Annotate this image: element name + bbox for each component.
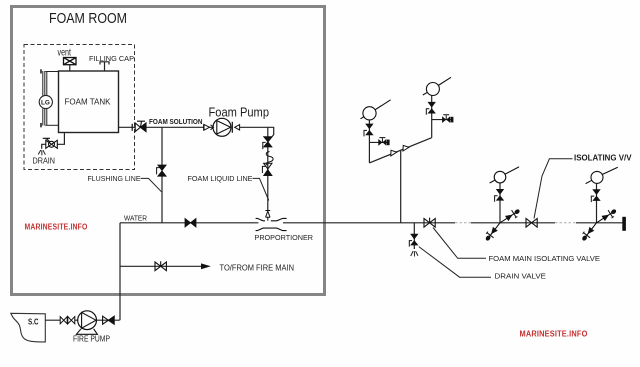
drain open end with rays xyxy=(42,144,46,149)
valve V-sc2 open xyxy=(68,317,75,324)
foam tank unit dashed enclosure xyxy=(24,45,135,170)
drain open end rays xyxy=(411,251,418,257)
nozzle into proportioner xyxy=(265,211,270,218)
svg-text:WATER: WATER xyxy=(124,213,147,222)
hose flange serif xyxy=(612,217,614,219)
valve V-w1 filled on water line xyxy=(185,219,196,228)
wire fire pump discharge xyxy=(97,319,120,321)
hydrant diagonal M4 xyxy=(581,208,617,241)
svg-text:ISOLATING V/V: ISOLATING V/V xyxy=(574,153,632,163)
vent flame screen xyxy=(64,58,77,65)
pump base xyxy=(76,329,97,335)
valve V-m2 filled xyxy=(428,102,436,114)
drain pipe from tank xyxy=(57,133,64,145)
monitor 2 column xyxy=(431,96,433,138)
hydrant stub M2 xyxy=(432,119,451,121)
svg-text:MARINESITE.INFO: MARINESITE.INFO xyxy=(520,329,588,338)
end cap blind xyxy=(622,217,626,231)
hose flange T xyxy=(487,233,494,238)
wire hose arm xyxy=(597,211,615,222)
svg-text:PROPORTIONER: PROPORTIONER xyxy=(255,233,314,242)
svg-text:FOAM ROOM: FOAM ROOM xyxy=(49,10,127,27)
wire hose arm xyxy=(584,223,596,239)
valve V-m1 filled xyxy=(365,124,373,136)
pump P1 foam pump xyxy=(213,118,231,136)
valve V-m4 filled xyxy=(592,189,600,201)
svg-text:vent: vent xyxy=(58,47,72,59)
hydrant stub M1 xyxy=(369,141,387,143)
pump outlet flange xyxy=(231,122,233,133)
arrow to fire main xyxy=(201,263,211,269)
svg-text:FLUSHING LINE: FLUSHING LINE xyxy=(88,174,141,183)
valve V-fl1 filled on foam liquid line xyxy=(264,137,272,147)
wire sea suction xyxy=(45,319,77,321)
hose flange T xyxy=(608,210,613,217)
svg-text:TO/FROM FIRE MAIN: TO/FROM FIRE MAIN xyxy=(220,263,295,272)
hose flange T xyxy=(512,210,517,217)
svg-text:LG: LG xyxy=(41,100,50,107)
wire foam liquid line vertical xyxy=(267,127,269,210)
svg-text:Foam Pump: Foam Pump xyxy=(209,105,270,120)
wire pump discharge xyxy=(240,127,274,141)
flow arrow on manifold 2 xyxy=(403,145,409,151)
hose valve xyxy=(588,227,595,234)
hose flange serif xyxy=(515,217,517,219)
svg-text:DRAIN: DRAIN xyxy=(33,157,56,166)
valve V-flush filled xyxy=(158,165,166,176)
relief valve V-fl2 xyxy=(264,163,272,169)
svg-text:S.C: S.C xyxy=(28,318,39,327)
valve V-sc1 open xyxy=(60,317,67,324)
wire water riser vertical xyxy=(119,223,121,320)
spring symbol relief xyxy=(266,152,273,166)
foam tank T1 xyxy=(59,71,119,133)
svg-text:FOAM LIQUID LINE: FOAM LIQUID LINE xyxy=(188,174,253,183)
pump P2 fire pump xyxy=(78,311,97,330)
monitor 1 column xyxy=(368,120,370,163)
svg-text:DRAIN VALVE: DRAIN VALVE xyxy=(495,272,547,281)
foam room boundary box xyxy=(12,7,325,295)
hose flange serif xyxy=(486,232,488,234)
valve V-m3 filled xyxy=(496,189,504,201)
svg-text:FOAM SOLUTION: FOAM SOLUTION xyxy=(149,117,203,126)
drain branch xyxy=(413,223,415,249)
wire vent stem xyxy=(69,65,71,71)
hydrant diagonal M3 xyxy=(485,208,521,241)
wire hose arm xyxy=(488,223,500,239)
flow arrow small xyxy=(211,125,214,130)
wire hose arm xyxy=(500,211,518,222)
hose flange T xyxy=(584,233,591,238)
wire to/from fire main xyxy=(120,265,202,267)
drain globe valve xyxy=(43,138,58,148)
wire tank outlet foam solution xyxy=(119,126,136,128)
bracket indicator xyxy=(263,142,266,149)
wire foam solution line to pump xyxy=(146,126,213,128)
monitor M3 xyxy=(494,171,506,183)
svg-text:FIRE PUMP: FIRE PUMP xyxy=(73,335,110,344)
flow arrow open xyxy=(204,124,210,130)
hose valve xyxy=(505,215,513,222)
hose coupling xyxy=(485,235,492,242)
monitor 3 column xyxy=(499,183,501,223)
level gauge LG xyxy=(41,69,59,127)
hose coupling xyxy=(581,235,588,242)
filling cap symbol xyxy=(100,62,109,71)
wire faint sections xyxy=(455,222,576,224)
wire water main horizontal xyxy=(120,222,623,224)
hose valve xyxy=(602,215,610,222)
svg-text:FILLING CAP: FILLING CAP xyxy=(89,54,134,63)
monitor M1 xyxy=(363,107,376,120)
monitor 4 column xyxy=(596,183,598,223)
proportioner venturi xyxy=(256,218,287,230)
monitor M2 xyxy=(426,83,439,96)
flow arrow on manifold xyxy=(391,150,397,156)
sea chest xyxy=(11,313,46,342)
wire flushing line xyxy=(161,127,163,223)
svg-text:MARINESITE.INFO: MARINESITE.INFO xyxy=(25,223,88,232)
hose coupling xyxy=(514,208,521,214)
svg-text:FOAM TANK: FOAM TANK xyxy=(65,97,111,107)
valve V-iso2 isolating xyxy=(526,219,537,228)
valve V-drain filled xyxy=(410,234,418,246)
valve V-iso1 foam main isolating xyxy=(424,218,435,228)
riser to monitors 1-2 xyxy=(400,150,402,223)
valve V-fm open xyxy=(155,261,166,270)
outlet reducer arrow xyxy=(235,125,240,130)
hose valve xyxy=(491,227,498,234)
tank outlet valve half-filled xyxy=(135,121,146,131)
valve V-fp discharge half-filled xyxy=(103,316,115,324)
hose flange serif xyxy=(583,232,585,234)
hose coupling xyxy=(610,208,617,214)
flange tick xyxy=(131,124,133,131)
monitor M4 xyxy=(591,171,603,183)
diagonal manifold xyxy=(369,138,431,163)
svg-text:FOAM MAIN ISOLATING VALVE: FOAM MAIN ISOLATING VALVE xyxy=(489,254,601,263)
